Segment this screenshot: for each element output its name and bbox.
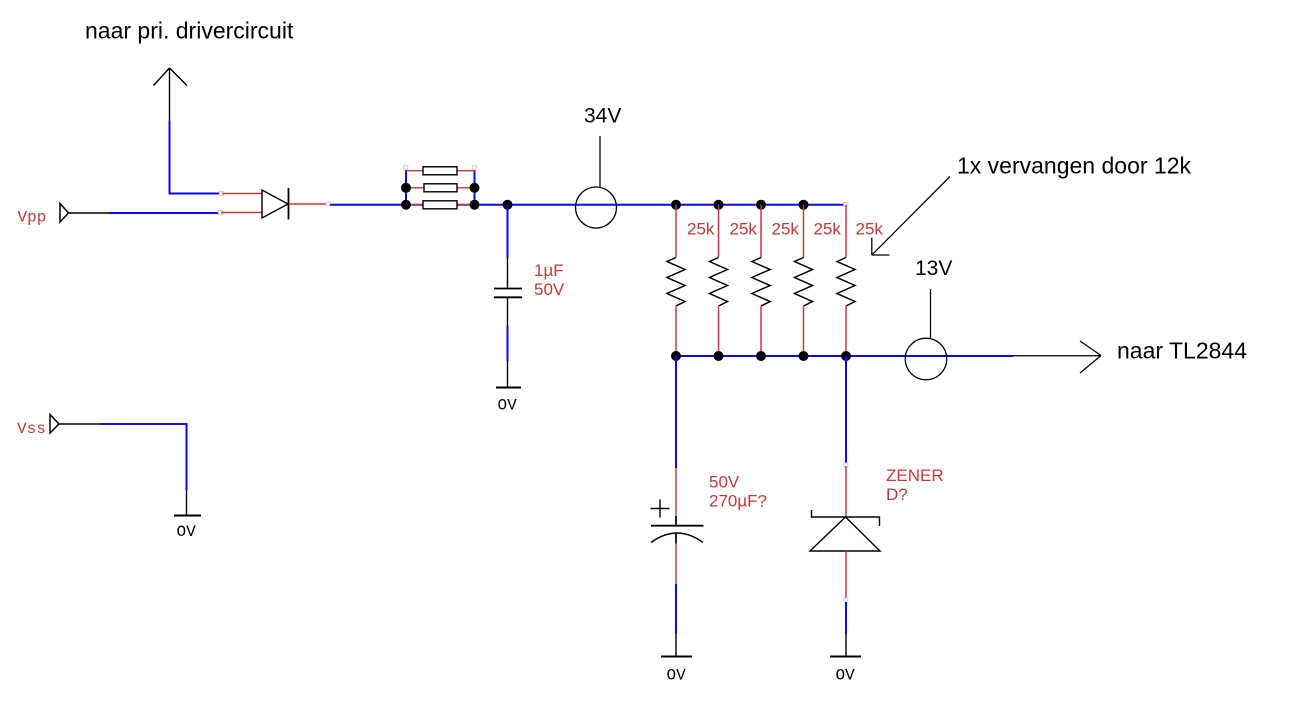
svg-text:ZENER: ZENER [886,466,944,485]
svg-text:OV: OV [498,397,518,415]
svg-text:OV: OV [177,523,197,541]
probe circle of 34V node [576,187,617,228]
red pin stub from diode cathode [289,203,326,205]
fuse F3 body [423,201,457,209]
red pin stub into diode (lower) [221,212,262,214]
value label 50V 270µF? of C2 [709,473,767,511]
wire (blue) from bottom rail down to capacitor C2 [675,356,677,468]
wire (blue) capacitor C2 to ground [675,584,677,634]
junction dot top rail R1 [671,200,681,210]
wire (blue) Vss run to ground drop [101,424,187,490]
capacitor C2 top plate [651,525,704,527]
wire (blue) fuse bank right vertical [474,168,476,205]
svg-text:naar pri. drivercircuit: naar pri. drivercircuit [85,18,294,44]
annotation arrow pointing to R5 [872,177,950,256]
probe circle of 13V node [905,338,947,380]
value label 25k of R5 [856,220,884,239]
red lead into zener cathode [845,466,847,517]
red pin stubs of fuse F1 (top row) [406,170,475,172]
wire (black) from Vss connector [59,423,101,425]
fuse F2 body [424,184,457,192]
port Vpp label [18,209,47,227]
svg-text:34V: 34V [584,105,621,128]
resistor R4 25k [795,205,813,356]
value label 25k of R1 [687,220,715,239]
svg-text:25k: 25k [856,220,884,239]
wire (blue) from bottom rail down to zener [845,356,847,465]
fuse F1 body [423,167,457,175]
wire (blue) down from tap to capacitor C1 [507,205,509,258]
svg-text:Vss: Vss [17,420,46,438]
probe line of 13V node [930,289,932,339]
junction dot bottom rail R3 [756,351,766,361]
junction dot fuse right bottom [470,200,480,210]
zener diode D? symbol [810,510,880,551]
red lead from capacitor C2 bottom [675,544,677,585]
port Vpp connector triangle [60,204,69,223]
junction dot bottom rail R1 [671,351,681,361]
black top stub of capacitor C2 [675,516,677,525]
ground label 0V under C1 [498,397,518,415]
pin marker fuse bank top-left [404,166,408,170]
junction dot bottom rail R2 [714,351,724,361]
junction dot fuse right middle [470,183,480,193]
ground below zener [830,634,861,657]
wire (blue) from arrow shaft down and right to diode anode pin [170,121,222,194]
junction dot top rail R3 [756,200,766,210]
port Vss label [17,420,46,438]
junction dot at capacitor C1 tap [503,200,513,210]
pin marker below zener [844,598,848,602]
ground below Vss [174,490,201,516]
junction dot bottom rail R4 [799,351,809,361]
wire (blue) bottom rail [676,355,1013,357]
arrow to TL2844 (black shaft + open head) [1013,341,1101,373]
ground below capacitor C2 [661,634,692,657]
svg-text:50V: 50V [534,280,565,299]
svg-text:Vpp: Vpp [18,209,47,227]
svg-text:1x vervangen door 12k: 1x vervangen door 12k [957,153,1191,179]
svg-text:270µF?: 270µF? [709,492,767,511]
pin marker above zener [844,463,848,467]
resistor R1 25k [667,205,685,356]
junction dot top rail R2 [714,200,724,210]
junction dot top rail R4 [799,200,809,210]
svg-text:25k: 25k [730,220,758,239]
red pin stubs of fuse F3 (bottom row) [406,204,475,206]
svg-text:OV: OV [836,667,856,685]
ground label 0V under C2 [667,667,687,685]
ground label 0V under Vss [177,523,197,541]
capacitor C2 curved bottom plate [651,533,703,543]
pin marker at diode upper anode stub [220,192,224,196]
black lead into capacitor C1 [507,258,509,288]
red pin stub into diode (upper) [222,193,262,195]
value label ZENER D? [886,466,944,504]
value label 25k of R3 [772,220,800,239]
ground below capacitor C1 [496,361,521,388]
port Vss connector triangle [50,415,59,434]
wire (blue) Vpp to diode lower anode pin [109,212,219,214]
svg-text:OV: OV [667,667,687,685]
pin marker top rail corner R5 [844,203,848,207]
pin marker at diode cathode stub end [326,202,330,206]
svg-text:25k: 25k [814,220,842,239]
red lead from zener anode [845,551,847,600]
svg-text:D?: D? [886,485,908,504]
node label 34V [584,105,621,128]
resistor R2 25k [710,205,728,356]
wire (blue) fuse bank left vertical [405,168,407,205]
junction dot fuse left bottom [401,200,411,210]
probe line of 34V node [599,136,601,188]
capacitor C1 plates [494,289,522,298]
svg-text:50V: 50V [709,473,740,492]
svg-text:naar TL2844: naar TL2844 [1117,338,1247,364]
red lead into capacitor C2 [675,468,677,516]
wire (blue) zener to ground [845,602,847,634]
wire (blue) capacitor C1 to ground [507,326,509,361]
value label 25k of R4 [814,220,842,239]
capacitor C1 value label 1µF 50V [534,261,565,299]
node label 13V [915,257,952,280]
resistor R5 25k [837,205,855,356]
black lead from capacitor C1 bottom [507,298,509,327]
diode D1 [262,188,289,220]
resistor R3 25k [752,205,770,356]
pin marker at diode lower anode stub [219,211,223,215]
ground label 0V under zener [836,667,856,685]
svg-text:25k: 25k [687,220,715,239]
svg-text:25k: 25k [772,220,800,239]
junction dot bottom rail R5 [841,351,851,361]
red pin stubs of fuse F2 (middle row) [406,187,475,189]
black bottom stub of capacitor C2 [675,533,677,544]
annotation text: naar TL2844 [1117,338,1247,364]
annotation text: 1x vervangen door 12k [957,153,1191,179]
wire (blue) main top rail from diode to right corner [330,204,846,206]
annotation text: naar pri. drivercircuit [85,18,294,44]
svg-text:1µF: 1µF [534,261,564,280]
wire (black) from Vpp connector [69,212,110,214]
pin marker fuse bank top-right [472,166,476,170]
svg-text:13V: 13V [915,257,952,280]
arrow to pri. drivercircuit (arrowhead + black shaft) [154,68,188,121]
junction dot fuse left middle [401,183,411,193]
polarity plus sign of capacitor C2 [651,500,670,518]
value label 25k of R2 [730,220,758,239]
